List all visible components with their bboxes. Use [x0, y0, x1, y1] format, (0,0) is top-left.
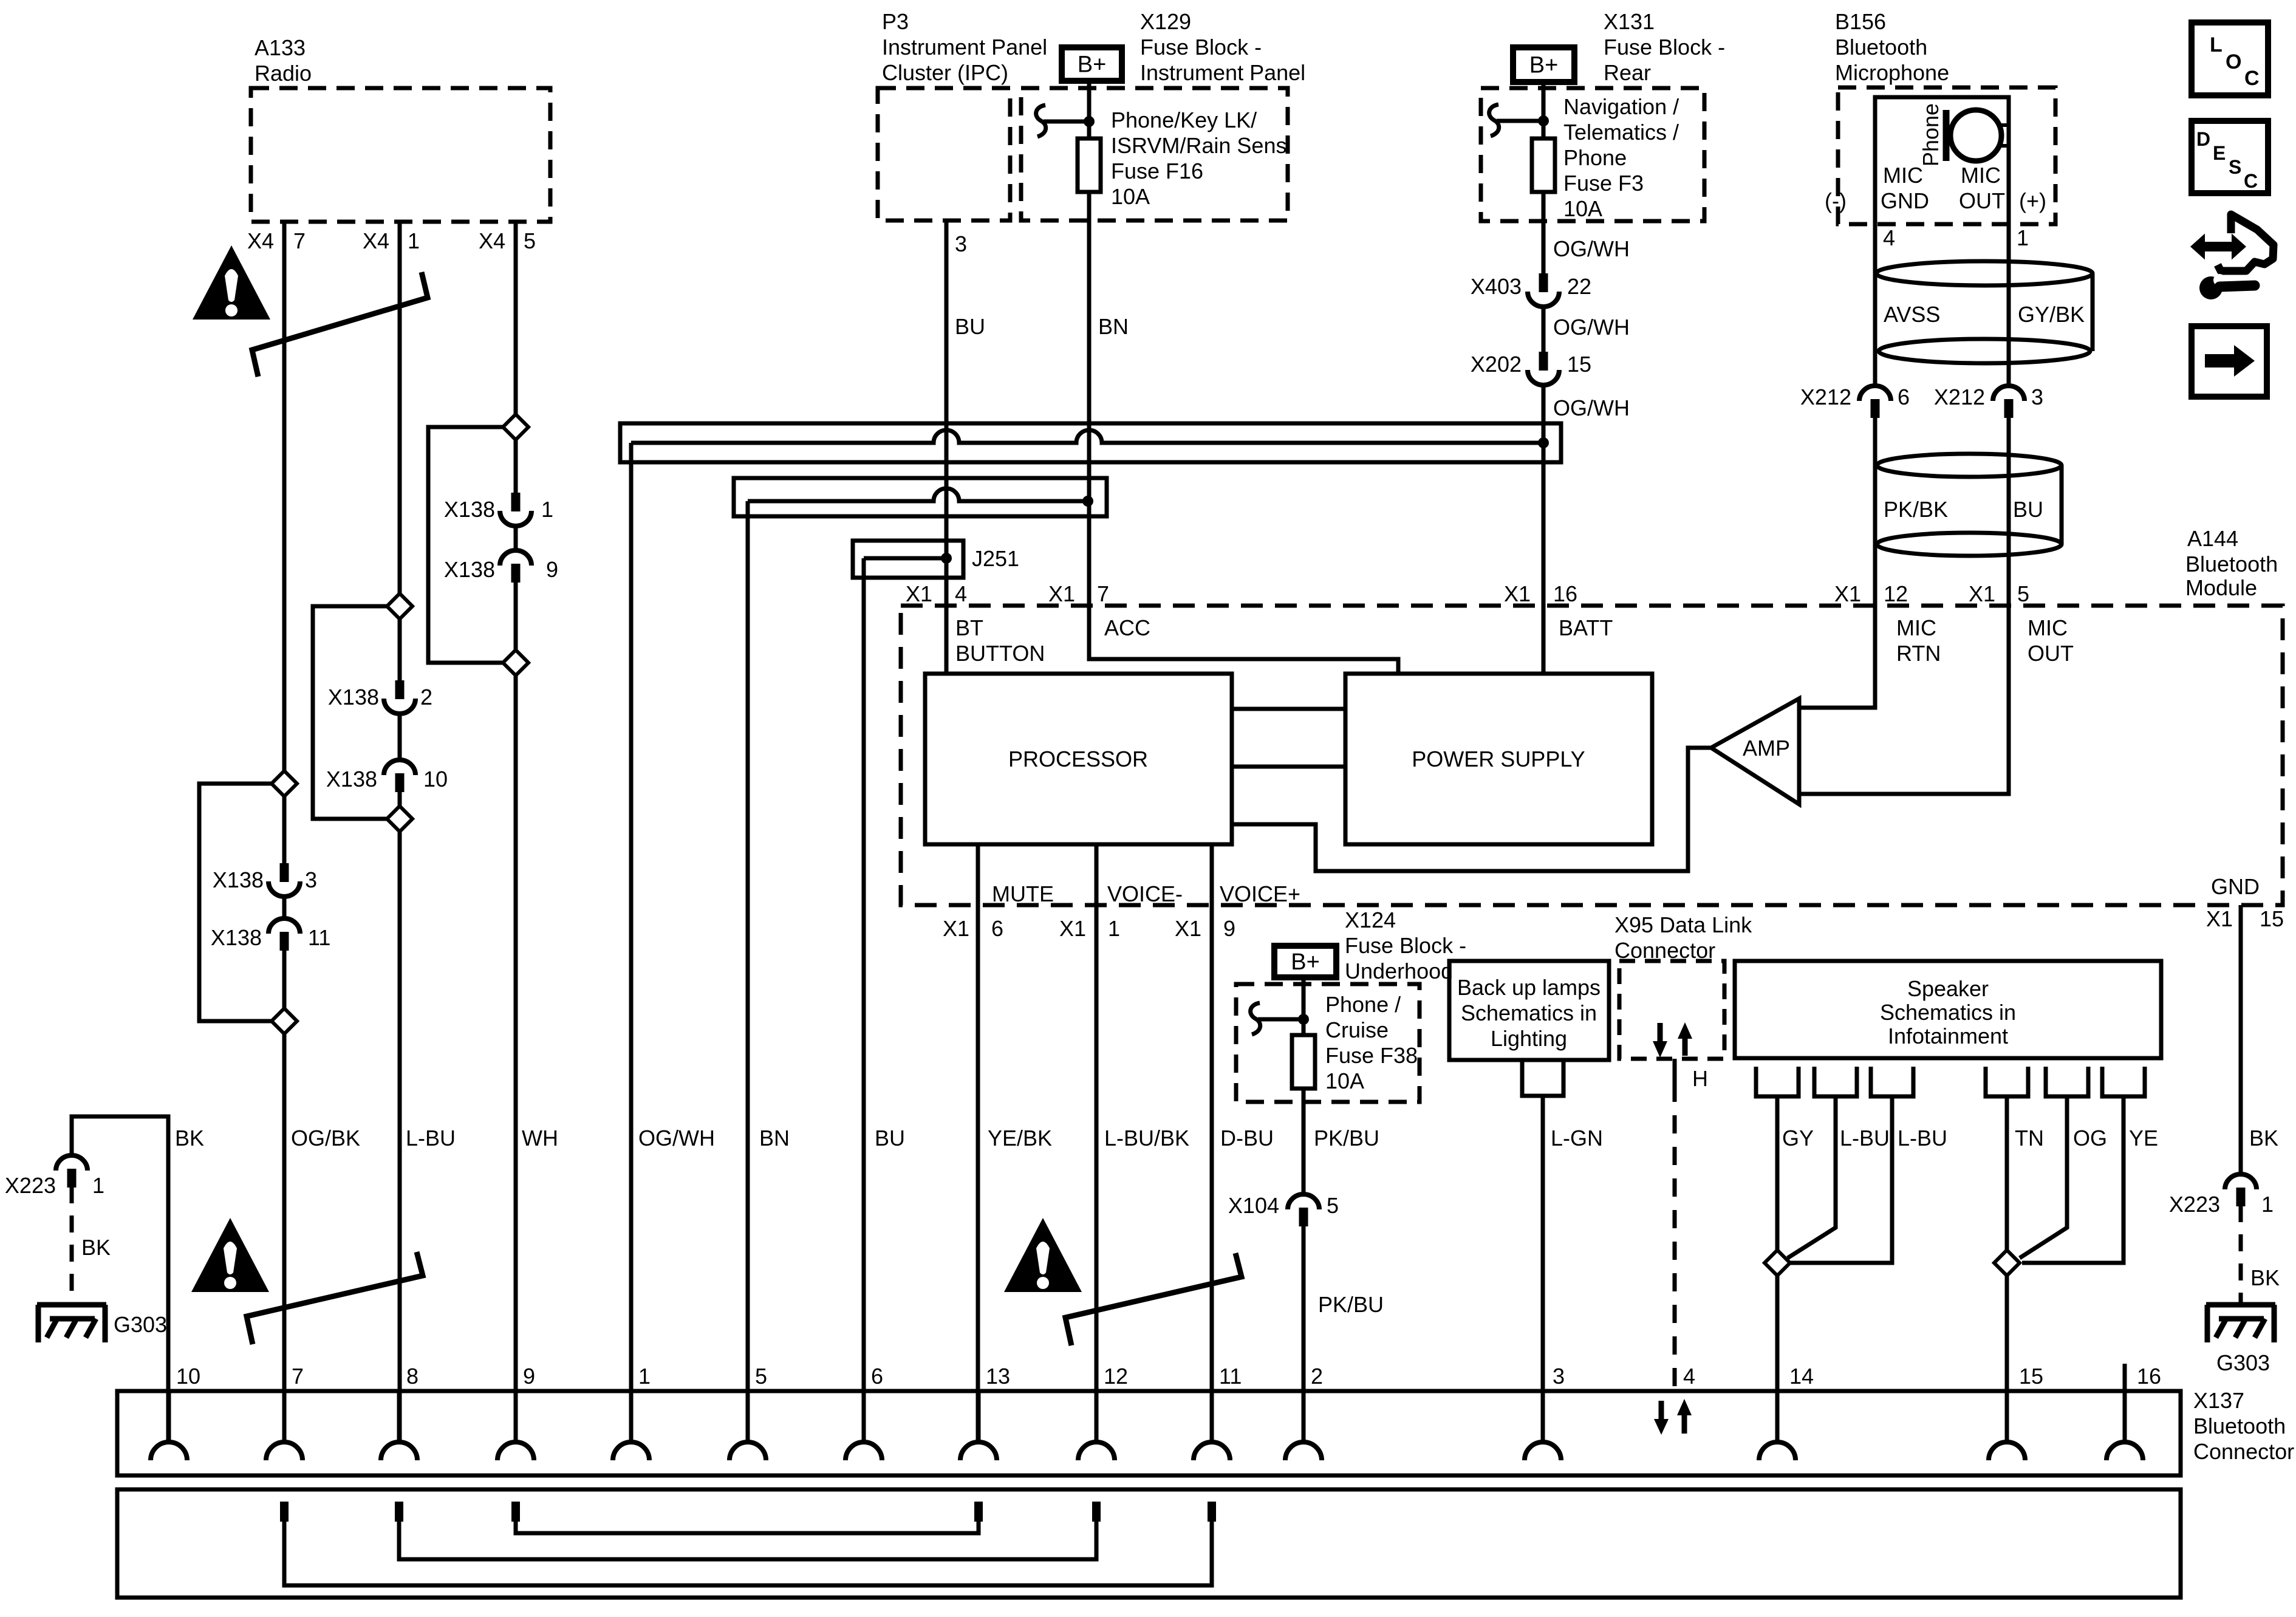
- wire BK X223 to pin 10: [72, 1116, 204, 1442]
- svg-text:1: 1: [2017, 225, 2029, 250]
- crossed-wires symbol 1: [252, 272, 428, 377]
- connector X138 2: [328, 680, 432, 714]
- svg-text:10: 10: [176, 1364, 200, 1389]
- svg-text:Lighting: Lighting: [1491, 1026, 1567, 1051]
- svg-text:L-BU: L-BU: [1840, 1126, 1890, 1150]
- speaker pin bracket 6: [2102, 1067, 2145, 1096]
- wire PK/BU X104 to pin 2: [1303, 1225, 1384, 1442]
- svg-text:Fuse F38: Fuse F38: [1325, 1043, 1418, 1068]
- svg-text:OG/WH: OG/WH: [1553, 395, 1630, 420]
- svg-text:Cluster (IPC): Cluster (IPC): [882, 60, 1008, 85]
- connector X223 1 right: [2169, 1174, 2274, 1217]
- svg-text:OUT: OUT: [2028, 641, 2074, 666]
- pin number X137 9: [523, 1364, 535, 1389]
- pin 16 stub: [2123, 1364, 2127, 1442]
- svg-text:10A: 10A: [1111, 184, 1150, 209]
- svg-text:7: 7: [293, 228, 306, 253]
- pin label A144 X1 1: [1059, 916, 1120, 941]
- svg-text:X223: X223: [5, 1173, 56, 1198]
- svg-text:2: 2: [420, 685, 432, 709]
- B+ flag X129: [1062, 47, 1122, 81]
- svg-text:5: 5: [524, 228, 536, 253]
- junction dot X129: [1084, 116, 1095, 127]
- svg-text:OG: OG: [2073, 1126, 2107, 1150]
- svg-text:3: 3: [955, 231, 967, 256]
- svg-text:Back up lamps: Back up lamps: [1457, 975, 1601, 1000]
- svg-text:12: 12: [1104, 1364, 1128, 1389]
- X137 lower blade 1995: [1208, 1502, 1216, 1522]
- wire OG/WH fuse to X403: [1543, 192, 1630, 273]
- svg-text:Telematics /: Telematics /: [1563, 120, 1679, 145]
- svg-text:1: 1: [92, 1173, 104, 1198]
- svg-text:PROCESSOR: PROCESSOR: [1008, 747, 1148, 771]
- branch wire WH loop: [428, 427, 503, 663]
- svg-text:Infotainment: Infotainment: [1888, 1024, 2008, 1048]
- X137 lower blade 657: [395, 1502, 403, 1522]
- svg-text:VOICE+: VOICE+: [1220, 881, 1300, 906]
- svg-text:X223: X223: [2169, 1192, 2220, 1217]
- svg-text:1: 1: [541, 497, 553, 522]
- svg-text:9: 9: [523, 1364, 535, 1389]
- wire VOICE- processor to pin 12: [1096, 844, 1189, 1442]
- label MIC OUT: [2028, 615, 2074, 666]
- pin label A133 X4 1: [363, 228, 420, 253]
- svg-text:4: 4: [1883, 225, 1895, 250]
- wire PK/BK X212-6 down: [1873, 417, 1877, 606]
- svg-text:4: 4: [955, 581, 967, 606]
- wire OG/BK upper segment: [284, 222, 360, 1150]
- fuse block X129 box: [1021, 9, 1305, 220]
- B+ flag X124: [1274, 946, 1336, 977]
- svg-text:X212: X212: [1800, 385, 1851, 409]
- wire WH through X138: [514, 440, 518, 552]
- wire OG/BK between X138-11 and diamond: [282, 949, 287, 1008]
- X137 lower blade 1805: [1092, 1502, 1101, 1522]
- shielded cable PK/BK BU: [1877, 454, 2062, 556]
- label BATT: [1559, 615, 1613, 640]
- svg-text:BT: BT: [955, 615, 983, 640]
- wire processor to power supply 1: [1232, 707, 1345, 711]
- svg-text:YE/BK: YE/BK: [988, 1126, 1052, 1150]
- branch wire OG/BK loop: [199, 784, 272, 1021]
- wire BK dashed to G303 right: [2241, 1205, 2280, 1305]
- svg-text:BK: BK: [81, 1235, 111, 1260]
- svg-text:13: 13: [986, 1364, 1010, 1389]
- svg-text:X202: X202: [1471, 352, 1522, 377]
- svg-text:BU: BU: [2013, 497, 2043, 522]
- wire MIC GND B156 to X212-6: [1873, 224, 1877, 387]
- svg-text:X403: X403: [1471, 274, 1522, 299]
- junction block J251: [853, 541, 1019, 578]
- microphone B156 inner housing: [1875, 97, 2009, 224]
- wire BN bus B leg to pin 5: [746, 501, 750, 1442]
- data link connector X95 box: [1614, 912, 1752, 1059]
- svg-text:X138: X138: [213, 867, 264, 892]
- wire GY to pin 14: [1777, 1096, 1814, 1250]
- svg-text:12: 12: [1884, 581, 1908, 606]
- wire OG/BK through X138: [282, 796, 287, 920]
- wire TN diamond to pin 15: [2005, 1276, 2009, 1442]
- wire OG/BK lower segment to pin 7: [282, 1034, 287, 1442]
- pin number X137 2: [1311, 1364, 1323, 1389]
- svg-text:Fuse Block -: Fuse Block -: [1140, 35, 1262, 60]
- svg-text:MIC: MIC: [1896, 615, 1936, 640]
- svg-text:3: 3: [1553, 1364, 1565, 1389]
- label BT BUTTON: [955, 615, 1045, 666]
- wire MUTE processor to pin 13: [978, 844, 1052, 1442]
- branch wire L-BU loop: [313, 606, 387, 819]
- svg-text:MIC: MIC: [1961, 163, 2001, 188]
- pin number X137 14: [1789, 1364, 1814, 1389]
- svg-text:16: 16: [1553, 581, 1577, 606]
- label MIC GND pin 4: [1825, 163, 1929, 250]
- pin number X137 3: [1553, 1364, 1565, 1389]
- fuse block X124 box: [1236, 908, 1466, 1102]
- svg-text:Instrument Panel: Instrument Panel: [1140, 60, 1305, 85]
- pin number X137 11: [1219, 1364, 1242, 1389]
- svg-text:GND: GND: [1881, 188, 1929, 213]
- pin label A144 X1 9: [1175, 916, 1235, 941]
- wire OG/WH BATT to power supply: [1542, 443, 1546, 674]
- svg-text:X131: X131: [1604, 9, 1655, 34]
- svg-text:AMP: AMP: [1743, 736, 1790, 761]
- svg-text:O: O: [2226, 50, 2241, 73]
- speaker pin bracket 5: [2046, 1067, 2088, 1096]
- icon forward arrow: [2192, 326, 2267, 397]
- svg-text:X1: X1: [906, 581, 932, 606]
- svg-text:10A: 10A: [1325, 1068, 1364, 1093]
- harness bus A (OG/WH net): [620, 423, 1561, 462]
- X137 lower blade 468: [280, 1502, 289, 1522]
- speaker pin bracket 3: [1871, 1067, 1913, 1096]
- svg-text:OG/WH: OG/WH: [1553, 315, 1630, 340]
- wire WH upper segment: [516, 222, 558, 1150]
- wire L-BU lower segment to pin 8: [398, 832, 402, 1442]
- svg-text:Rear: Rear: [1604, 60, 1651, 85]
- wire processor to amp: [1232, 748, 1711, 871]
- wire ACC elbow to power supply: [1089, 606, 1398, 674]
- pin label A144 X1 7: [1048, 581, 1109, 606]
- wire BN fuse to A144 ACC: [759, 192, 1129, 1150]
- shielded cable AVSS GY/BK: [1876, 261, 2093, 363]
- bluetooth module A144 box: [901, 526, 2283, 905]
- wire L-BU through X138: [398, 619, 402, 761]
- junction dot bus A to OG/WH: [1538, 437, 1549, 448]
- jumper pin 8 to pin 12: [399, 1522, 1096, 1559]
- warning symbol 1: [193, 245, 270, 320]
- svg-text:4: 4: [1683, 1364, 1695, 1389]
- svg-text:TN: TN: [2015, 1126, 2044, 1150]
- connector X138 9: [444, 550, 558, 583]
- svg-text:(+): (+): [2019, 188, 2046, 213]
- svg-text:Bluetooth: Bluetooth: [1835, 35, 1927, 60]
- svg-text:L-GN: L-GN: [1551, 1126, 1603, 1150]
- svg-text:22: 22: [1567, 274, 1591, 299]
- speaker schematics box: [1735, 961, 2161, 1058]
- svg-text:PK/BU: PK/BU: [1314, 1126, 1379, 1150]
- svg-text:L-BU/BK: L-BU/BK: [1104, 1126, 1189, 1150]
- svg-text:GY/BK: GY/BK: [2018, 302, 2085, 327]
- svg-text:G303: G303: [114, 1312, 167, 1337]
- jumper pin 9 to pin 13: [516, 1522, 979, 1533]
- pin number X137 13: [986, 1364, 1010, 1389]
- svg-text:Phone /: Phone /: [1325, 992, 1401, 1017]
- svg-text:8: 8: [406, 1364, 419, 1389]
- svg-text:9: 9: [546, 557, 558, 582]
- junction dot bus B to BN: [1082, 496, 1093, 507]
- pin number X137 7: [292, 1364, 304, 1389]
- pin label A144 X1 15: [2206, 906, 2284, 931]
- svg-text:POWER SUPPLY: POWER SUPPLY: [1412, 747, 1585, 771]
- svg-text:BK: BK: [2249, 1126, 2278, 1150]
- arrow up in X137: [1677, 1399, 1692, 1434]
- warning symbol 3: [1004, 1218, 1082, 1292]
- svg-text:BUTTON: BUTTON: [955, 641, 1045, 666]
- wire H X95 to pin 4 (dashed): [1675, 1059, 1708, 1391]
- svg-text:Schematics in: Schematics in: [1461, 1000, 1597, 1025]
- svg-text:Fuse F16: Fuse F16: [1111, 159, 1203, 183]
- svg-text:L: L: [2210, 33, 2223, 56]
- connector X104 5: [1228, 1193, 1339, 1226]
- wire GY diamond to pin 14: [1775, 1276, 1780, 1442]
- splice diamond speakers left: [1765, 1250, 1790, 1276]
- svg-text:Underhood: Underhood: [1345, 959, 1453, 983]
- svg-text:1: 1: [638, 1364, 651, 1389]
- pin label A144 X1 12: [1834, 581, 1908, 606]
- svg-text:Microphone: Microphone: [1835, 60, 1949, 85]
- svg-text:Module: Module: [2185, 575, 2257, 600]
- wire YE speaker: [2022, 1096, 2158, 1263]
- wire BN B+ to fuse F16: [1087, 81, 1092, 138]
- svg-text:L-BU: L-BU: [1898, 1126, 1947, 1150]
- pin label P3 3: [955, 231, 967, 256]
- svg-text:X129: X129: [1140, 9, 1191, 34]
- speaker pin bracket 1: [1756, 1067, 1799, 1096]
- fuse F3 10A: [1532, 94, 1679, 221]
- fuse block X131 box: [1481, 9, 1725, 221]
- svg-text:P3: P3: [882, 9, 909, 34]
- svg-text:5: 5: [1327, 1193, 1339, 1218]
- svg-text:Phone: Phone: [1563, 145, 1627, 170]
- back up lamps schematics box: [1449, 961, 1609, 1060]
- svg-text:X95 Data Link: X95 Data Link: [1614, 912, 1752, 937]
- connector X212 3: [1934, 385, 2043, 418]
- svg-text:Connector: Connector: [2193, 1439, 2294, 1464]
- crossed-wires symbol 3: [1065, 1253, 1242, 1345]
- ground G303 left: [37, 1305, 167, 1342]
- svg-text:1: 1: [1108, 916, 1120, 941]
- label VOICE-: [1107, 881, 1183, 906]
- label MUTE: [992, 881, 1054, 906]
- splice diamond WH lower: [503, 650, 528, 675]
- svg-text:B+: B+: [1078, 52, 1107, 78]
- bluetooth microphone B156 box: [1835, 9, 2055, 224]
- svg-text:D-BU: D-BU: [1220, 1126, 1274, 1150]
- svg-text:B+: B+: [1291, 949, 1320, 975]
- svg-text:6: 6: [991, 916, 1003, 941]
- svg-text:G303: G303: [2216, 1350, 2270, 1375]
- svg-text:B+: B+: [1529, 53, 1559, 78]
- pin label A144 X1 6: [943, 916, 1003, 941]
- pin label A144 X1 4: [906, 581, 967, 606]
- svg-text:C: C: [2244, 67, 2260, 90]
- svg-text:Schematics in: Schematics in: [1880, 1000, 2016, 1025]
- svg-text:X138: X138: [326, 767, 377, 791]
- svg-text:X4: X4: [363, 228, 389, 253]
- junction dot X131: [1538, 115, 1549, 126]
- svg-text:Bluetooth: Bluetooth: [2185, 552, 2278, 576]
- svg-text:GND: GND: [2211, 874, 2260, 899]
- connector X137 lower housing: [117, 1489, 2181, 1598]
- junction dot J251 to BU: [941, 553, 952, 564]
- svg-text:X104: X104: [1228, 1193, 1279, 1218]
- svg-text:X1: X1: [1048, 581, 1075, 606]
- svg-text:GY: GY: [1782, 1126, 1814, 1150]
- svg-text:(-): (-): [1825, 188, 1847, 213]
- svg-text:7: 7: [1097, 581, 1109, 606]
- svg-text:MUTE: MUTE: [992, 881, 1054, 906]
- svg-text:WH: WH: [522, 1126, 558, 1150]
- svg-text:X1: X1: [1834, 581, 1861, 606]
- wire processor to power supply 2: [1232, 765, 1345, 769]
- wire VOICE+ processor to pin 11: [1212, 844, 1274, 1442]
- svg-text:11: 11: [1219, 1364, 1242, 1389]
- svg-text:S: S: [2229, 156, 2241, 178]
- wire amp to MIC RTN: [1799, 606, 1875, 708]
- fuse feed hook X131: [1489, 104, 1542, 136]
- svg-text:Fuse Block -: Fuse Block -: [1604, 35, 1725, 60]
- label VOICE+: [1220, 881, 1300, 906]
- svg-text:X138: X138: [328, 685, 379, 709]
- svg-text:H: H: [1692, 1066, 1708, 1091]
- splice diamond speakers right: [1994, 1250, 2020, 1276]
- svg-text:X138: X138: [444, 497, 495, 522]
- connector X138 3: [213, 863, 317, 897]
- wire OG speaker: [2020, 1096, 2107, 1258]
- svg-text:VOICE-: VOICE-: [1107, 881, 1183, 906]
- connector X138 10: [326, 760, 448, 792]
- jumper pin 7 to pin 11: [284, 1522, 1212, 1585]
- icon DESC: [2192, 121, 2268, 193]
- svg-text:OG/WH: OG/WH: [1553, 236, 1630, 261]
- fuse feed hook X124: [1251, 1003, 1302, 1034]
- arrow up in X95: [1678, 1022, 1692, 1056]
- svg-text:D: D: [2196, 128, 2210, 150]
- pin number X137 10: [176, 1364, 200, 1389]
- wire BU P3-3 to A144 BT BUTTON: [875, 220, 985, 1150]
- arrow down in X95: [1653, 1023, 1667, 1058]
- splice diamond L-BU lower: [387, 806, 412, 832]
- wire L-BU upper segment: [400, 222, 456, 1150]
- svg-text:10: 10: [423, 767, 448, 791]
- pin number X137 5: [755, 1364, 767, 1389]
- wire OG/WH X202 to bus: [1543, 384, 1630, 443]
- fuse F16 10A: [1078, 108, 1286, 209]
- connector X138 11: [211, 918, 330, 951]
- svg-text:15: 15: [1567, 352, 1591, 377]
- pin label A144 X1 5: [1969, 581, 2029, 606]
- svg-text:3: 3: [305, 867, 317, 892]
- svg-text:Fuse Block -: Fuse Block -: [1345, 933, 1466, 958]
- svg-text:X124: X124: [1345, 908, 1396, 932]
- svg-text:1: 1: [408, 228, 420, 253]
- svg-text:L-BU: L-BU: [406, 1126, 456, 1150]
- svg-text:15: 15: [2260, 906, 2284, 931]
- svg-text:X138: X138: [211, 925, 262, 950]
- crossed-wires symbol 2: [247, 1252, 423, 1344]
- connector X137 label: [2193, 1388, 2294, 1464]
- svg-text:AVSS: AVSS: [1884, 302, 1940, 327]
- svg-text:J251: J251: [972, 546, 1019, 571]
- wire MIC OUT B156 to X212-3: [2007, 224, 2011, 387]
- wire GND A144 to X223: [2241, 905, 2278, 1175]
- svg-text:Phone: Phone: [1918, 103, 1943, 166]
- power supply U2: [1345, 674, 1652, 844]
- svg-text:X1: X1: [1969, 581, 1995, 606]
- svg-text:X4: X4: [247, 228, 274, 253]
- svg-text:A133: A133: [255, 35, 306, 60]
- wire PK/BU B+ to fuse F38: [1302, 977, 1306, 1035]
- connector X212 6: [1800, 385, 1910, 418]
- wire WH between X138-9 and diamond: [514, 581, 518, 650]
- connector X138 1: [444, 493, 553, 526]
- X137 lower blade 1611: [974, 1502, 983, 1522]
- arrow down in X137: [1654, 1401, 1669, 1435]
- microphone element symbol: [1946, 110, 2009, 161]
- label MIC OUT pin 1: [1959, 163, 2046, 250]
- B+ flag X131: [1513, 47, 1574, 82]
- splice diamond L-BU upper: [387, 593, 412, 619]
- svg-text:YE: YE: [2129, 1126, 2158, 1150]
- svg-text:BN: BN: [1098, 314, 1129, 339]
- svg-text:16: 16: [2137, 1364, 2161, 1389]
- pin number X137 16: [2137, 1364, 2161, 1389]
- icon LOC: [2192, 22, 2268, 95]
- splice diamond WH upper: [503, 414, 528, 440]
- svg-text:Instrument Panel: Instrument Panel: [882, 35, 1047, 60]
- wire amp to MIC OUT: [1799, 606, 2009, 794]
- harness bus B (BN net): [734, 478, 1107, 516]
- svg-text:ISRVM/Rain Sens: ISRVM/Rain Sens: [1111, 133, 1286, 158]
- svg-text:BU: BU: [875, 1126, 905, 1150]
- svg-text:2: 2: [1311, 1364, 1323, 1389]
- svg-text:X1: X1: [2206, 906, 2233, 931]
- wire L-BU speaker b: [1790, 1096, 1947, 1263]
- svg-text:Connector: Connector: [1614, 938, 1715, 963]
- pin number X137 15: [2019, 1364, 2043, 1389]
- svg-text:X4: X4: [479, 228, 505, 253]
- svg-text:C: C: [2244, 170, 2258, 192]
- label GND: [2211, 874, 2260, 899]
- svg-text:Navigation /: Navigation /: [1563, 94, 1679, 119]
- svg-text:5: 5: [755, 1364, 767, 1389]
- svg-text:PK/BK: PK/BK: [1884, 497, 1948, 522]
- svg-text:15: 15: [2019, 1364, 2043, 1389]
- svg-text:Phone/Key LK/: Phone/Key LK/: [1111, 108, 1257, 132]
- ground G303 right: [2206, 1305, 2275, 1375]
- svg-text:OG/WH: OG/WH: [638, 1126, 715, 1150]
- svg-text:Speaker: Speaker: [1907, 976, 1989, 1001]
- svg-text:5: 5: [2017, 581, 2029, 606]
- svg-text:ACC: ACC: [1104, 615, 1150, 640]
- X137 pin terminals: [151, 1391, 2143, 1460]
- svg-text:6: 6: [1898, 385, 1910, 409]
- svg-text:X137: X137: [2193, 1388, 2244, 1413]
- pin number X137 4: [1683, 1364, 1695, 1389]
- svg-text:9: 9: [1223, 916, 1235, 941]
- svg-text:MIC: MIC: [2028, 615, 2068, 640]
- wire WH lower segment to pin 9: [514, 675, 518, 1442]
